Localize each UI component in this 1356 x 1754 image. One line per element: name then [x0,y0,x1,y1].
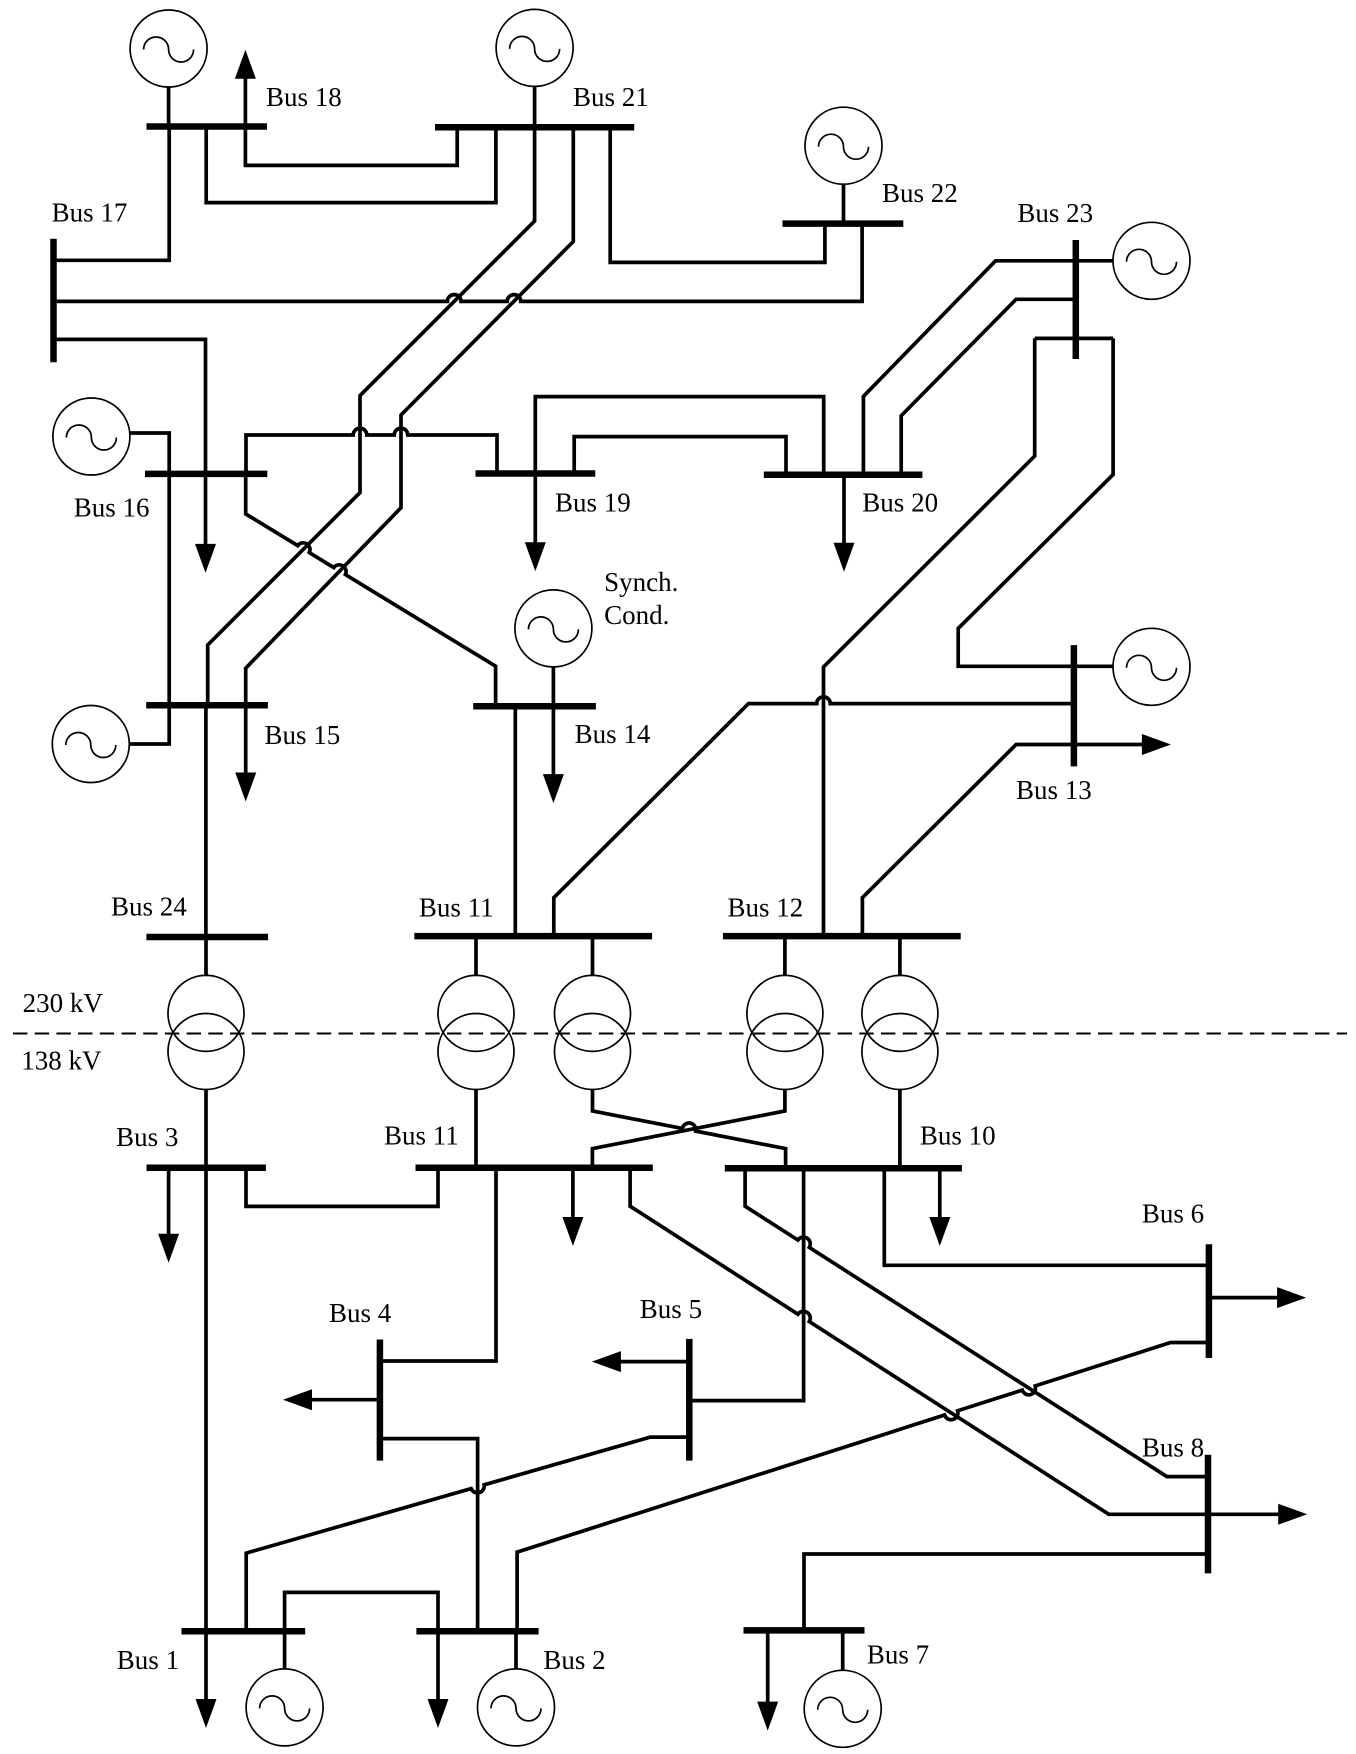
load arrow bus 6 (right) [1209,1287,1306,1308]
wire line 1-2 [285,1592,438,1631]
svg-text:Bus 17: Bus 17 [52,198,128,228]
generator stem bus 2 [514,1631,518,1669]
load arrow bus 1 [196,1631,217,1728]
wire line 8-9 with hop [630,1168,1208,1515]
wire bus 23 lower header [1035,337,1113,341]
load arrow bus 4 (left) [283,1389,380,1410]
bus 4 bar [377,1340,384,1461]
svg-text:Bus 5: Bus 5 [640,1294,702,1324]
wire line 15-24 [204,705,208,937]
generator at bus 15 [52,706,129,783]
wire line 19-20 circuit 2 [574,437,786,475]
wire line 18-21 circuit 2 [206,127,496,203]
transformer bus 11 - bus 10 [555,975,631,1089]
svg-text:Bus 13: Bus 13 [1016,775,1092,805]
wire bus 11 to transformer a [474,936,478,975]
generator stem bus 15 [129,705,169,744]
generator at bus 16 [53,398,130,475]
generator at bus 18 [130,10,207,87]
bus 3 bar [147,1164,266,1171]
generator at bus 13 [1113,628,1190,705]
synchronous condenser at bus 14 [515,590,592,667]
bus 7 bar [744,1627,865,1634]
wire line 1-5 with hop [246,1437,689,1631]
svg-text:Bus 12: Bus 12 [728,892,804,922]
wire line 15-21 circuit B [246,127,574,705]
generator stem bus 18 [167,87,171,127]
svg-text:230 kV: 230 kV [23,988,104,1018]
wire line 14-16 with hops [246,474,496,706]
wire line 2-4 [380,1439,478,1632]
generator at bus 1 [246,1669,323,1746]
generator at bus 7 [804,1670,881,1747]
wire bus 24 to transformer [204,937,208,975]
load arrow bus 5 (left) [592,1351,689,1372]
svg-text:Bus 20: Bus 20 [862,487,938,517]
generator at bus 21 [496,9,573,86]
load arrow bus 7 [757,1630,778,1730]
bus 23 bar [1073,240,1080,359]
svg-text:Bus 23: Bus 23 [1017,198,1093,228]
wire line 17-22 with hops [54,224,863,302]
load arrow bus 15 [235,705,256,801]
svg-text:Bus 8: Bus 8 [1142,1433,1204,1463]
svg-text:Bus 21: Bus 21 [573,82,649,112]
bus 18 bar [147,123,268,130]
transformer bus 12 - bus 9 [747,975,823,1089]
load arrow bus 8 (right) [1208,1504,1307,1525]
generator stem bus 1 [283,1631,287,1669]
wire line 7-8 [804,1554,1208,1630]
wire line 19-20 circuit 1 [535,397,823,475]
bus 21 bar [435,124,634,131]
svg-text:Bus 3: Bus 3 [116,1122,178,1152]
svg-text:Bus 7: Bus 7 [867,1640,929,1670]
transformer bus 24 - bus 3 [168,975,244,1089]
bus 2 bar [416,1628,538,1635]
wire line 20-23 circuit 2 [901,299,1076,474]
wire line 18-21 circuit 1 [245,127,457,166]
wire transformer c to bus 9 (crossover) [592,1090,785,1168]
bus 11 bar 230kV [414,933,652,940]
wire line 20-23 circuit 1 and generator stem bus 23 [863,261,1113,475]
svg-text:Bus 11: Bus 11 [384,1120,459,1150]
wire line 3-9 [246,1168,438,1207]
wire transformer b to bus 10 (crossover) with hop [593,1090,786,1169]
wire bus 11 to transformer b [591,936,595,975]
svg-text:Bus 15: Bus 15 [265,720,341,750]
load arrow bus 10 [929,1168,950,1246]
bus 6 bar [1206,1244,1213,1358]
bus 9 bar (labelled Bus 11) [416,1164,653,1171]
svg-text:Bus 4: Bus 4 [329,1298,392,1328]
wire line 12-13 [862,745,1074,937]
svg-text:Bus 1: Bus 1 [117,1645,179,1675]
load arrow bus 19 [525,474,546,572]
load arrow bus 3 [158,1168,179,1263]
bus 20 bar [764,471,923,478]
bus 13 bar [1071,645,1078,766]
generator stem bus 21 [533,86,537,127]
wire bus 12 to transformer c [783,936,787,975]
wire line 12-23 [824,338,1035,936]
wire line 13-23 and generator stem bus 13 [958,338,1113,666]
transformer bus 11 - bus 9 [438,975,514,1089]
svg-text:Synch.: Synch. [604,567,678,597]
wire line 16-17 [54,339,206,474]
wire line 8-10 with hop [745,1168,1208,1476]
generator at bus 22 [805,107,882,184]
svg-text:Bus 6: Bus 6 [1142,1199,1204,1229]
svg-text:Bus 24: Bus 24 [111,891,187,921]
generator at bus 23 [1113,222,1190,299]
svg-text:Bus 16: Bus 16 [74,493,150,523]
bus 10 bar [725,1165,962,1172]
load arrow bus 16 [195,474,216,573]
load arrow bus 9 [562,1168,583,1246]
load arrow bus 18 (up) [235,50,256,127]
generator stem bus 22 [842,184,846,223]
wire line 21-22 [610,127,825,262]
wire line 15-16 [167,474,171,705]
dashed 230kV/138kV boundary line [13,1032,1347,1034]
svg-text:Bus 10: Bus 10 [920,1120,996,1150]
wire line 5-10 [689,1168,803,1400]
transformer bus 12 - bus 10 [862,975,938,1089]
wire line 6-10 [884,1168,1209,1265]
wire line 11-13 with hop [554,697,1074,936]
wire line 15-21 circuit A [208,127,535,705]
synchronous condenser stem [552,667,556,706]
svg-text:Bus 22: Bus 22 [882,178,958,208]
generator at bus 2 [478,1669,555,1746]
bus 8 bar [1205,1455,1212,1574]
wire line 4-9 [380,1168,496,1361]
svg-text:Bus 18: Bus 18 [266,82,342,112]
bus 1 bar [182,1628,306,1635]
bus 16 bar [145,471,267,478]
bus 12 bar 230kV [723,933,961,940]
bus 14 bar [473,703,596,710]
wire transformer to bus 3 and line 1-3 [204,1090,208,1632]
wire transformer d to bus 10 [898,1090,902,1169]
bus 24 bar [146,934,268,941]
svg-text:Bus 19: Bus 19 [555,488,631,518]
load arrow bus 14 [543,706,564,803]
bus 17 bar [50,239,57,363]
bus 5 bar [686,1339,693,1461]
wire line 2-6 with hops [517,1343,1209,1632]
wire transformer a to bus 9 [474,1090,478,1168]
generator stem bus 7 [841,1630,845,1670]
bus 19 bar [476,470,596,477]
load arrow bus 2 [428,1631,449,1728]
svg-text:Cond.: Cond. [604,600,669,630]
wire bus 12 to transformer d [898,936,902,975]
bus 22 bar [783,220,904,227]
svg-text:Bus 2: Bus 2 [543,1645,605,1675]
svg-text:138 kV: 138 kV [21,1046,102,1076]
bus 15 bar [146,702,268,709]
load arrow bus 13 (right) [1074,734,1171,755]
svg-text:Bus 11: Bus 11 [419,892,494,922]
generator stem bus 16 [130,433,169,474]
wire line 11-14 [513,706,517,936]
svg-text:Bus 14: Bus 14 [575,719,651,749]
wire line 17-18 [54,127,170,261]
load arrow bus 20 [834,476,855,572]
wire line 16-19 with hops [246,428,497,474]
